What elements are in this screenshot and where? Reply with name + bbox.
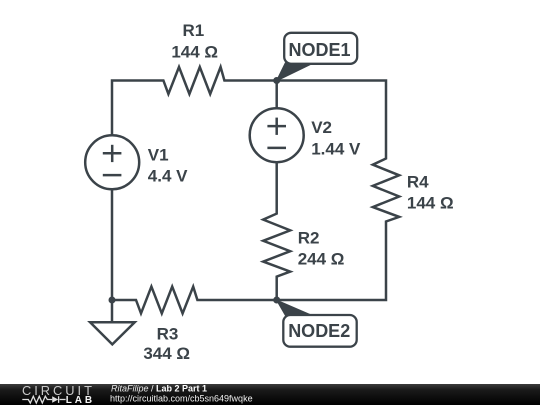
svg-text:1.44 V: 1.44 V	[311, 139, 361, 158]
svg-text:V1: V1	[148, 145, 169, 164]
svg-text:R2: R2	[298, 229, 320, 248]
svg-text:NODE1: NODE1	[288, 40, 350, 60]
svg-text:244 Ω: 244 Ω	[298, 250, 345, 269]
svg-text:R1: R1	[183, 21, 205, 40]
svg-text:R4: R4	[407, 173, 429, 192]
svg-text:NODE2: NODE2	[288, 321, 350, 341]
svg-text:4.4 V: 4.4 V	[148, 167, 188, 186]
svg-text:144 Ω: 144 Ω	[171, 42, 218, 61]
svg-text:344 Ω: 344 Ω	[143, 344, 190, 363]
svg-text:RitaFilipe / Lab 2 Part 1: RitaFilipe / Lab 2 Part 1	[111, 383, 207, 393]
svg-text:V2: V2	[311, 118, 332, 137]
svg-text:http://circuitlab.com/cb5sn649: http://circuitlab.com/cb5sn649fwqke	[110, 393, 253, 403]
svg-text:R3: R3	[157, 325, 179, 344]
svg-text:144 Ω: 144 Ω	[407, 194, 454, 213]
svg-text:LAB: LAB	[66, 395, 95, 405]
